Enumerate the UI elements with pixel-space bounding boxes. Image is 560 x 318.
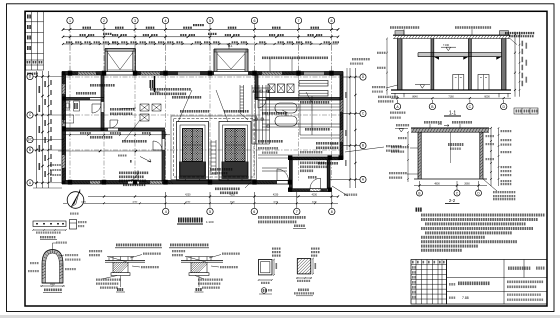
section axis bubbles bbox=[394, 103, 400, 109]
left dimension chains bbox=[36, 71, 38, 188]
svg-text:B: B bbox=[362, 144, 364, 148]
plan title bbox=[178, 218, 203, 223]
section doors bbox=[453, 75, 464, 91]
svg-text:4230: 4230 bbox=[229, 194, 235, 197]
svg-text:4230: 4230 bbox=[230, 201, 236, 203]
detail 2-2 left dims bbox=[407, 132, 409, 182]
square detail D (vent) bbox=[297, 259, 311, 274]
detail 2-2 center text bbox=[448, 143, 463, 146]
horizontal vessels top right bbox=[299, 81, 328, 87]
svg-text:7160: 7160 bbox=[448, 95, 454, 98]
svg-text:3: 3 bbox=[134, 19, 136, 23]
pumps bbox=[140, 104, 149, 111]
detail 2-2 roof slab bbox=[411, 127, 489, 129]
svg-text:4230: 4230 bbox=[185, 201, 191, 203]
lintel end piece bbox=[70, 220, 77, 230]
small box right of section bbox=[514, 108, 538, 114]
left axis bubbles bbox=[27, 73, 33, 79]
title block main bbox=[447, 260, 548, 305]
compass north arrow bbox=[67, 192, 84, 209]
bottom dimension chains bbox=[88, 196, 338, 198]
section parapet right bbox=[500, 31, 509, 36]
svg-text:2660: 2660 bbox=[464, 183, 470, 186]
boiler at x=176.5 bbox=[177, 122, 209, 181]
detail 2-2 top labels bbox=[424, 121, 442, 124]
t-beam detail A bbox=[116, 244, 161, 247]
floor plan exterior walls bbox=[62, 72, 343, 185]
section parapet left bbox=[395, 31, 404, 36]
arch detail bbox=[42, 250, 63, 284]
detail 2-2 bottom dim bbox=[414, 185, 487, 187]
svg-text:4000: 4000 bbox=[50, 284, 56, 286]
bottom-right room bbox=[290, 156, 344, 158]
window double lines in gaps bbox=[63, 73, 342, 183]
svg-text:4230: 4230 bbox=[273, 201, 279, 203]
interior door arcs bbox=[92, 104, 101, 113]
boiler room label bbox=[210, 168, 232, 171]
boiler foundation dashed bbox=[171, 116, 257, 180]
platform edge lines lower right bbox=[262, 167, 287, 169]
t-beam detail B bbox=[170, 244, 208, 247]
svg-text:8: 8 bbox=[331, 19, 333, 23]
middle leaders bbox=[386, 145, 401, 147]
svg-text:7.88: 7.88 bbox=[462, 296, 469, 300]
vestibule 2 (second entrance) bbox=[214, 49, 248, 72]
twin rounded vessels bbox=[275, 103, 297, 113]
interior dim chain below partition bbox=[63, 134, 170, 136]
interior partition walls bbox=[62, 75, 340, 181]
svg-text:4230: 4230 bbox=[312, 194, 318, 197]
washroom fixtures bbox=[63, 101, 70, 110]
top axis bubbles bbox=[67, 17, 335, 23]
pipe runs bbox=[260, 103, 340, 105]
svg-text:4: 4 bbox=[165, 210, 167, 214]
plan annotation blobs bbox=[150, 88, 191, 91]
section 1-1 walls/columns bbox=[397, 39, 399, 91]
svg-text:4230: 4230 bbox=[312, 201, 318, 203]
section leader notes top bbox=[390, 26, 419, 29]
detail 2-2 floor bbox=[414, 178, 487, 180]
bottom wall door openings bbox=[128, 171, 138, 181]
svg-text:4800: 4800 bbox=[434, 183, 440, 186]
detail 2-2 bubbles bbox=[417, 190, 423, 196]
notes block bbox=[416, 208, 422, 212]
svg-text:5: 5 bbox=[209, 210, 211, 214]
square detail C (flue) bbox=[259, 260, 273, 275]
svg-text:1: 1 bbox=[69, 19, 71, 23]
svg-text:4: 4 bbox=[165, 19, 167, 23]
svg-text:7: 7 bbox=[298, 19, 300, 23]
section cut marks 1-1 bbox=[154, 76, 156, 92]
svg-text:M-1: M-1 bbox=[112, 41, 117, 45]
svg-text:5: 5 bbox=[209, 19, 211, 23]
boiler at x=219 bbox=[219, 122, 251, 181]
ladder between boilers bbox=[210, 140, 212, 175]
section right outside dims bbox=[514, 32, 516, 97]
detail 2-2 walls bbox=[417, 132, 419, 179]
detail 2-2 right dims bbox=[490, 128, 492, 186]
svg-text:6000: 6000 bbox=[484, 95, 490, 98]
svg-text:8640: 8640 bbox=[412, 95, 418, 98]
svg-text:6: 6 bbox=[253, 210, 255, 214]
stair ladder to platform bbox=[239, 85, 241, 113]
pipe manifold bbox=[252, 85, 270, 144]
svg-text:B: B bbox=[418, 191, 420, 195]
signature table bbox=[26, 11, 44, 70]
title block revision table bbox=[411, 260, 447, 305]
right axis bubbles bbox=[360, 74, 366, 80]
right dim chains bbox=[349, 68, 351, 188]
wall hatch bbox=[62, 72, 343, 185]
title block texts bbox=[508, 267, 530, 270]
top axis lines bbox=[70, 24, 332, 74]
bottom axis bubbles bbox=[163, 208, 169, 214]
svg-text:4230: 4230 bbox=[132, 201, 138, 203]
three hatched boxes bbox=[268, 84, 275, 93]
bottom-left room annotations bbox=[58, 150, 162, 152]
svg-text:7: 7 bbox=[296, 210, 298, 214]
svg-text:1:100: 1:100 bbox=[206, 220, 214, 224]
columns bbox=[62, 71, 343, 192]
svg-text:2: 2 bbox=[103, 19, 105, 23]
wall poche fills bbox=[62, 72, 343, 185]
section left outside dims bbox=[386, 39, 388, 95]
svg-text:2-2: 2-2 bbox=[449, 198, 456, 203]
section 1-1 roof slab bbox=[393, 34, 510, 36]
svg-text:6: 6 bbox=[254, 19, 256, 23]
vestibule 1 (top entrance) bbox=[105, 49, 136, 72]
bottom edge gray band bbox=[0, 315, 560, 318]
svg-text:7.160: 7.160 bbox=[443, 44, 450, 47]
axis dash lines through plan bbox=[66, 75, 341, 181]
svg-text:1/C: 1/C bbox=[28, 138, 34, 142]
vent symbol bbox=[228, 44, 230, 49]
section bottom dim bbox=[391, 97, 511, 99]
svg-text:B: B bbox=[29, 148, 31, 152]
section beam/platform bbox=[418, 52, 502, 54]
svg-text:4230: 4230 bbox=[185, 194, 191, 197]
svg-text:8: 8 bbox=[331, 210, 333, 214]
section floor bbox=[391, 89, 511, 91]
svg-text:4230: 4230 bbox=[273, 194, 279, 197]
lintel detail bbox=[33, 221, 66, 227]
top dimension chains bbox=[63, 29, 338, 31]
